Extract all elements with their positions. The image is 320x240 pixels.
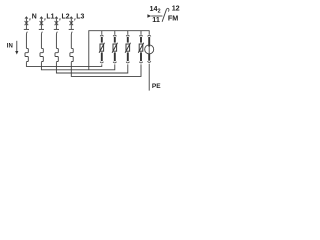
svg-text:12: 12 (172, 3, 180, 12)
svg-text:L2: L2 (62, 14, 70, 21)
svg-text:N: N (32, 14, 37, 21)
svg-text:FM: FM (168, 14, 178, 23)
svg-text:11: 11 (152, 15, 160, 24)
svg-text:14: 14 (150, 4, 158, 13)
svg-text:L3: L3 (76, 14, 84, 21)
svg-text:L1: L1 (46, 14, 54, 21)
svg-text:IN: IN (7, 44, 13, 50)
svg-text:PE: PE (152, 83, 161, 90)
svg-text:2: 2 (158, 9, 161, 15)
